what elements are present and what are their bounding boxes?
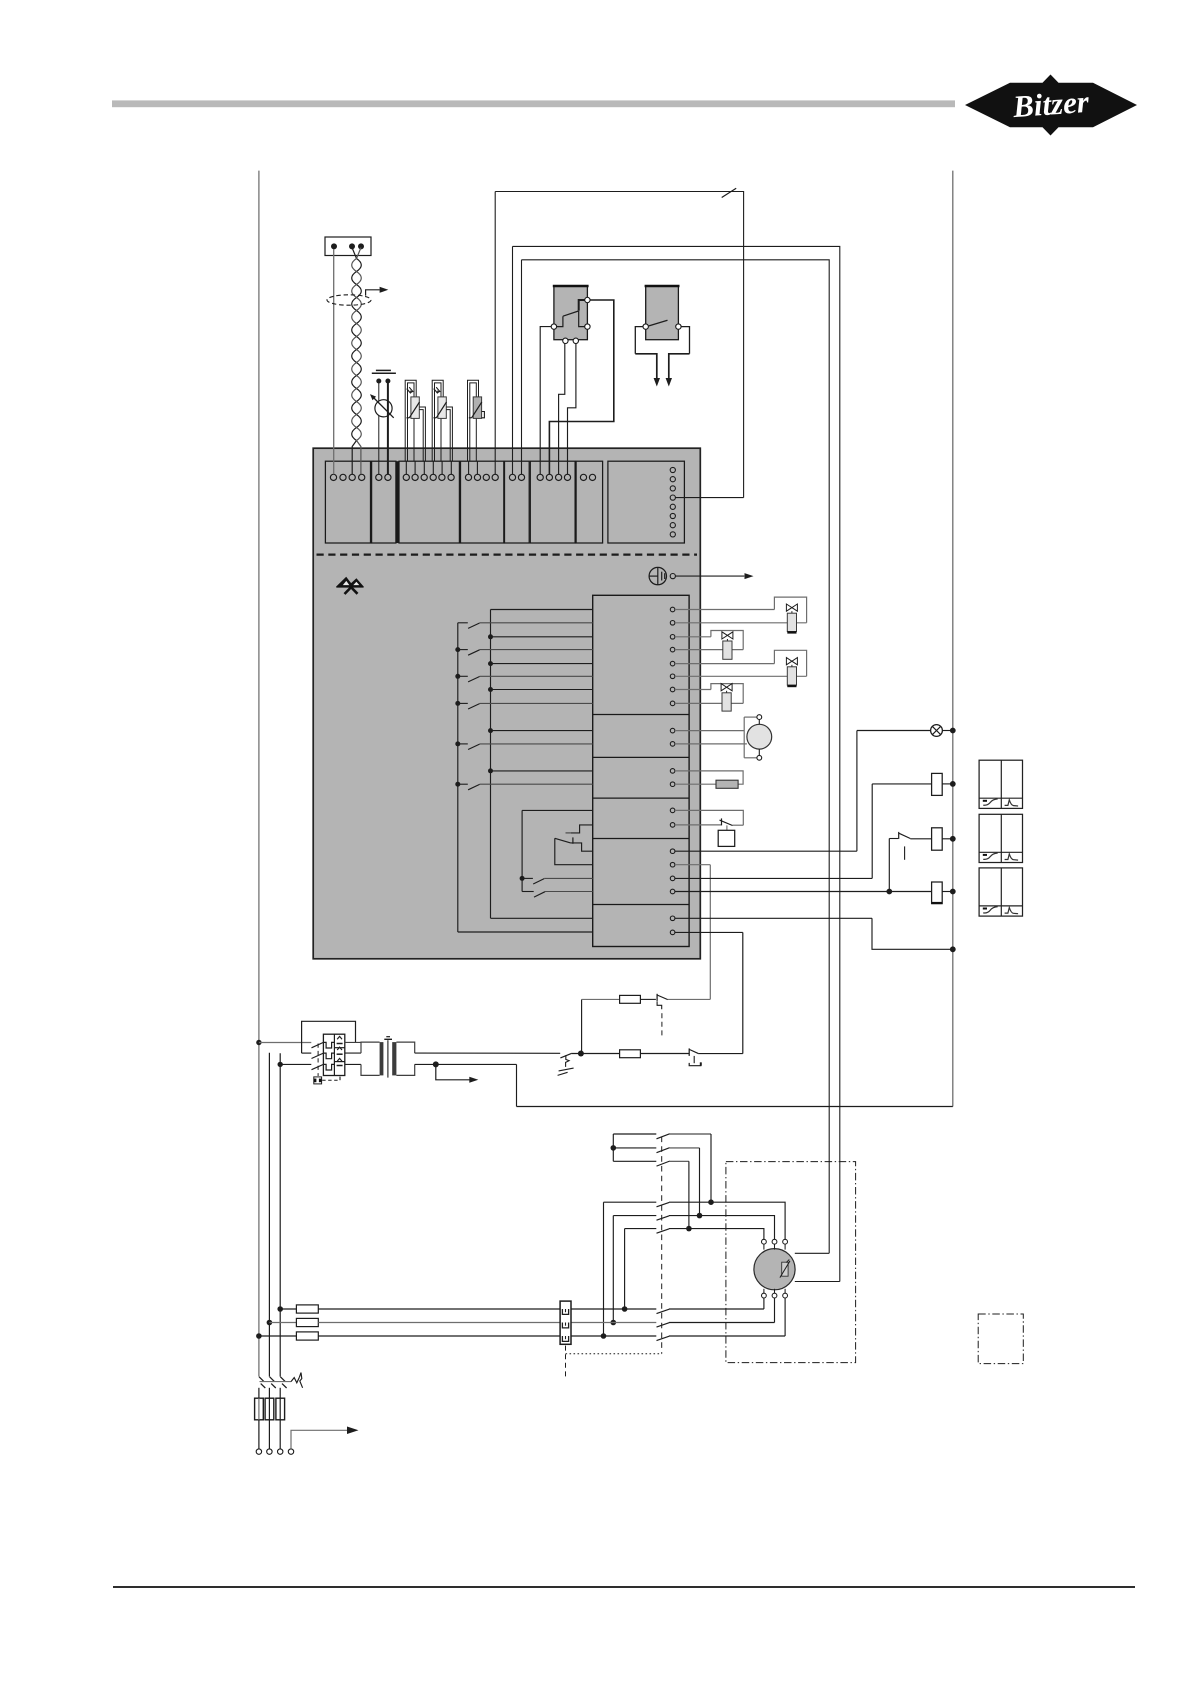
- fuse F main pole 3: [276, 1398, 285, 1420]
- oil flow switch F7: [675, 810, 743, 825]
- internal bus switched: [457, 623, 459, 932]
- internal direct taps: [488, 634, 493, 639]
- wire L2 feed to overload relay: [278, 1062, 283, 1067]
- wire secondary bottom to neutral run: [415, 1063, 517, 1065]
- main switch Q1 linkage and trip symbol: [260, 1381, 292, 1383]
- fuse F main pole 1: [255, 1398, 264, 1420]
- wire branch up to fuse F2: [581, 999, 583, 1053]
- node control feed: [578, 1051, 584, 1057]
- wire relay terminal s6t1 to neutral: [675, 917, 872, 919]
- spare option dash-dot box: [978, 1314, 1023, 1364]
- protection device relay 2 with contact: [643, 286, 681, 340]
- wire overload to transformer primary: [345, 1041, 361, 1043]
- terminal strip box 1: [325, 461, 370, 543]
- delayed action symbol under contact: [657, 1001, 662, 1009]
- wires K2 to motor nodes: [710, 1134, 712, 1202]
- Bitzer logo: [965, 75, 1137, 136]
- temperature sensor B3: [468, 380, 479, 461]
- wire from relay bottom terminal 2: [568, 342, 576, 474]
- motor enclosure dash-dot box: [726, 1162, 856, 1363]
- motor PTC sensor symbol: [782, 1262, 788, 1276]
- motor terminals top: [762, 1239, 767, 1244]
- wire L1 feed to overload relay F13: [256, 1040, 261, 1045]
- wire from bus terminal to relay circuit: [675, 497, 743, 499]
- footer rule: [113, 1586, 1135, 1588]
- wires relay 2 to discharge gas sensor arrows: [635, 327, 643, 354]
- internal oil monitoring bracket: [522, 809, 593, 811]
- svg-text:Bitzer: Bitzer: [1011, 84, 1091, 124]
- contactor K3 pole 1: [604, 1201, 657, 1203]
- arrow stub to further consumers: [436, 1064, 470, 1079]
- wire from relay terminals staircase 1: [540, 327, 554, 475]
- function diagram boxes timers: [979, 760, 1022, 808]
- overload relay F13 box: [323, 1034, 344, 1075]
- relay output terminals: [670, 607, 675, 612]
- contactor K3 pole 3: [625, 1228, 657, 1230]
- contactor K1 pole 2: [657, 1323, 670, 1327]
- contactor linkage dashed: [661, 1137, 663, 1354]
- wire contact up to relay terminal: [709, 865, 711, 1000]
- wire screen conductor: [333, 249, 335, 474]
- control circuit breaker F4 blade and trip: [560, 1053, 571, 1058]
- CAN bus port symbol: [649, 567, 666, 584]
- wire PE terminal with arrow: [291, 1430, 349, 1449]
- contactor K3 pole 2: [613, 1215, 656, 1217]
- solenoid valve Y4: [675, 689, 711, 691]
- signal lamp H1: [675, 850, 857, 852]
- overload relay contact paths and thermal elements: [323, 1042, 334, 1048]
- header rule: [112, 100, 955, 107]
- dotted linkage horizontal: [566, 1353, 662, 1355]
- wire relay terminal s5t2 out: [675, 864, 710, 866]
- solenoid valve Y3: [675, 663, 774, 665]
- terminal strip box 2: [372, 461, 396, 543]
- fuse row F1 L2: [267, 1320, 273, 1326]
- supply terminals L1 L2 L3 PE: [256, 1449, 261, 1454]
- dashed separation line inside controller: [317, 553, 698, 555]
- protection device relay 1 with changeover contact: [551, 286, 590, 343]
- wire neutral rail N right: [952, 171, 954, 1107]
- ground symbol on transformer core: [384, 1038, 392, 1040]
- CAN terminal and arrow: [670, 574, 675, 579]
- terminal strip box 6: [530, 461, 575, 543]
- wire contact up to relay terminal 2: [742, 932, 744, 1053]
- fuse F3 control: [620, 1050, 641, 1058]
- breaker linkage dashed with reset button: [317, 1044, 319, 1077]
- terminal strip box 4: [461, 461, 504, 543]
- contactor coil K1: [675, 877, 872, 879]
- transformer T1 core: [380, 1042, 384, 1075]
- twisted pair cable: [352, 248, 362, 475]
- relay section dividers: [593, 714, 689, 716]
- setpoint potentiometer: [378, 383, 380, 474]
- wire secondary top to control circuit: [415, 1052, 561, 1054]
- module symbol crossed triangles: [336, 577, 363, 594]
- internal oil contact 2: [522, 891, 534, 893]
- oil pump motor M2: [675, 730, 744, 732]
- wire from relay bottom terminal 1: [559, 342, 565, 474]
- internal oil contact 1: [520, 876, 525, 881]
- wire left supply rail L1: [258, 171, 260, 1377]
- setpoint terminals dots: [376, 379, 381, 384]
- solenoid valve Y2: [675, 636, 711, 638]
- terminal strip box 5: [505, 461, 530, 543]
- compressor motor M1: [754, 1249, 795, 1290]
- current transformer dashed link: [565, 1346, 567, 1379]
- transformer T1 primary winding: [361, 1042, 380, 1053]
- relay output box: [593, 595, 689, 946]
- contactor coil K3: [932, 828, 943, 850]
- wire PTC loop inner: [522, 260, 830, 1254]
- main switch Q1 pole blades: [259, 1377, 264, 1382]
- cable screen ellipse dashed: [327, 295, 371, 305]
- screen earth arrow: [366, 290, 380, 296]
- controller module CM-RC main box: [313, 448, 700, 959]
- terminal strip box 7: [576, 461, 603, 543]
- auxiliary contact of K1 lower with manual actuator: [640, 1053, 689, 1055]
- communication module box: [608, 461, 685, 543]
- contactor K1 pole 3: [657, 1336, 670, 1340]
- fuse F2 control: [620, 995, 641, 1003]
- internal delay changeover contact: [566, 832, 571, 834]
- auxiliary contact of K1 upper: [656, 994, 658, 1001]
- wire supply rail L2: [268, 1053, 270, 1377]
- contactor K2 pole 3: [613, 1160, 656, 1162]
- external setpoint DC bars: [376, 369, 391, 371]
- temperature sensor B2: [432, 380, 443, 461]
- contactor coil K2: [889, 891, 931, 893]
- temperature sensor B1: [405, 380, 416, 461]
- motor terminals bottom: [762, 1293, 767, 1298]
- crankcase heater R8: [675, 783, 716, 785]
- wires motor PTC to controller loop: [795, 1252, 829, 1254]
- wire supply rail L3: [279, 1053, 281, 1376]
- terminal strip box 3: [399, 461, 459, 543]
- wire loop over overload relay: [302, 1021, 356, 1053]
- wire PTC loop outer: [513, 246, 840, 1281]
- wire relay terminal s5t4 with node: [675, 891, 889, 893]
- transformer T1 secondary winding: [396, 1042, 414, 1053]
- fuse row F1 L1: [277, 1306, 283, 1312]
- solenoid valve Y1: [675, 609, 774, 611]
- fuse F main pole 2: [265, 1398, 274, 1420]
- communication terminals column: [670, 467, 675, 472]
- contactor K1 pole 1: [657, 1309, 670, 1313]
- contactor K2 pole 1: [613, 1133, 656, 1135]
- thick divider bar: [396, 461, 399, 543]
- terminal circles row: [330, 474, 336, 480]
- internal bus direct: [490, 610, 492, 919]
- internal relay contacts from switched bus: [458, 622, 468, 624]
- wires K3 down to phase lines: [603, 1202, 605, 1336]
- fuse row F1 L3: [256, 1333, 262, 1339]
- node on secondary neutral wire: [433, 1061, 439, 1067]
- wire neutral rail bottom run: [517, 1106, 953, 1108]
- contactor K2 pole 2: [613, 1147, 656, 1149]
- star bridge of contactor K2: [612, 1134, 614, 1161]
- pressure switch contact to coil K3: [888, 839, 890, 892]
- external terminal block: [325, 237, 371, 256]
- wires motor feed top: [711, 1202, 785, 1239]
- current transformer block: [560, 1301, 571, 1344]
- wire long loop top with break mark: [495, 192, 743, 498]
- wire thick detour from changeover common: [549, 300, 613, 474]
- wire relay terminal s6t2 out: [675, 931, 743, 933]
- circuit breaker blades of overload block: [312, 1042, 324, 1047]
